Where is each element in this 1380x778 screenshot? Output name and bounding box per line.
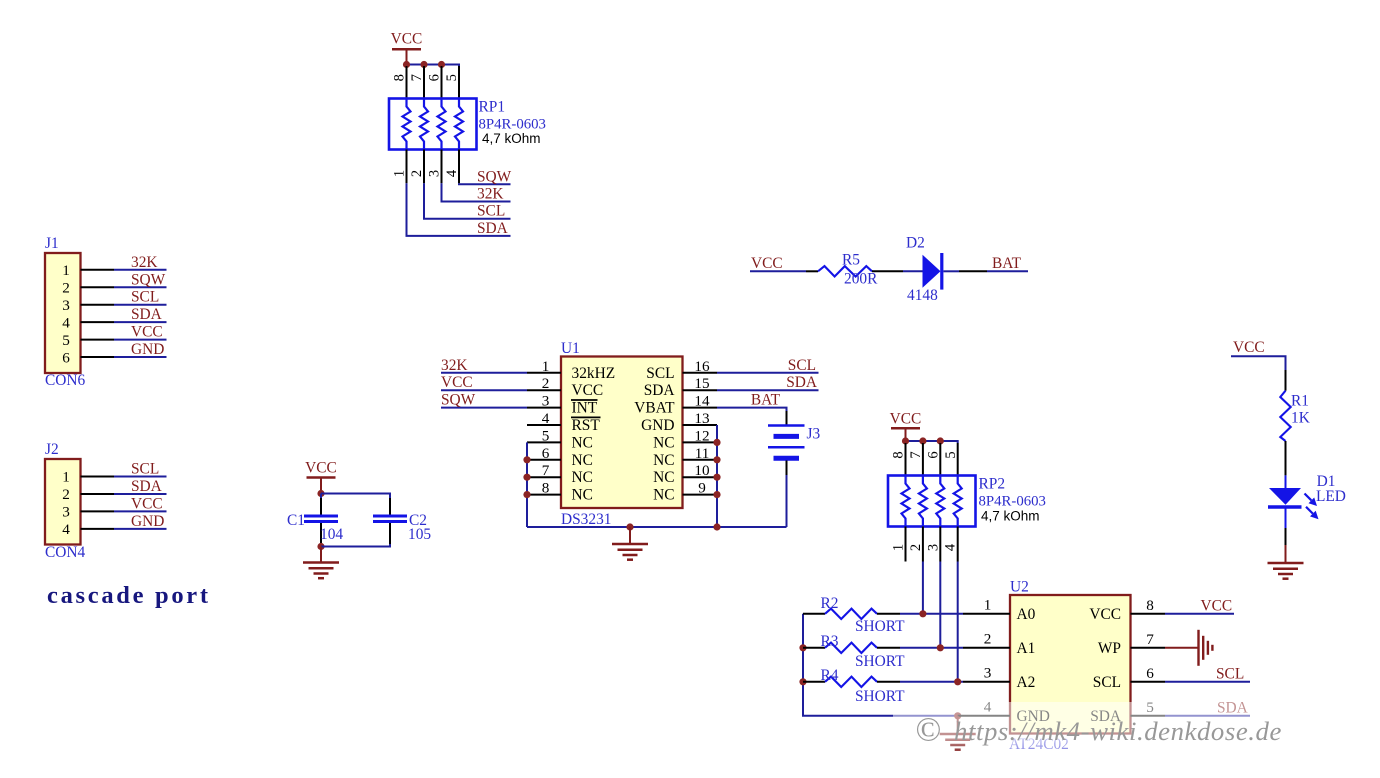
- svg-text:A0: A0: [1017, 606, 1036, 623]
- wire RP1 pin 1: [407, 183, 511, 236]
- pin stub J1 pin 2: [81, 286, 115, 288]
- wire: [903, 270, 923, 272]
- svg-text:©: ©: [915, 712, 941, 749]
- ground: [303, 563, 339, 579]
- svg-text:2: 2: [984, 630, 992, 647]
- svg-text:8P4R-0603: 8P4R-0603: [979, 494, 1046, 510]
- svg-text:SQW: SQW: [477, 168, 512, 185]
- junction: [523, 456, 530, 463]
- overline RST: [571, 416, 601, 418]
- ground (rotated) at WP: [1199, 630, 1213, 666]
- svg-text:6: 6: [427, 74, 443, 81]
- wire RP1 pin 4: [459, 183, 511, 184]
- pin stub C1 bottom: [320, 523, 322, 544]
- wire net SCL: [1165, 681, 1250, 683]
- svg-text:1: 1: [984, 596, 992, 613]
- svg-text:VCC: VCC: [890, 411, 922, 428]
- pin stub RP2 pin 2: [922, 527, 924, 562]
- svg-text:RP2: RP2: [979, 476, 1006, 493]
- resistor R2: [825, 609, 877, 619]
- svg-text:J3: J3: [807, 426, 821, 443]
- junction: [523, 491, 530, 498]
- pin stub U1 pin 10: [683, 476, 718, 478]
- svg-text:J1: J1: [45, 235, 59, 252]
- svg-text:5: 5: [542, 427, 550, 444]
- junction: [713, 439, 720, 446]
- pin stub U2 pin 4: [958, 715, 1010, 717]
- svg-text:VCC: VCC: [441, 374, 473, 391]
- svg-text:SQW: SQW: [131, 271, 166, 288]
- pin stub U1 pin 9: [683, 494, 718, 496]
- svg-text:U2: U2: [1010, 579, 1029, 596]
- junction: [713, 523, 720, 530]
- pin stub U1 pin 13: [683, 424, 718, 426]
- svg-text:https://mk4-wiki.denkdose.de: https://mk4-wiki.denkdose.de: [954, 716, 1282, 746]
- svg-text:1K: 1K: [1291, 410, 1310, 427]
- wire net VCC: [1165, 613, 1234, 615]
- pin stub RP2 pin 1: [905, 527, 907, 562]
- svg-text:BAT: BAT: [992, 255, 1022, 272]
- wire net SDA: [717, 389, 819, 391]
- svg-text:3: 3: [62, 504, 70, 521]
- pin stub RP1 pin 3: [441, 150, 443, 184]
- svg-text:4: 4: [943, 543, 959, 551]
- svg-text:DS3231: DS3231: [561, 511, 611, 528]
- junction: [626, 523, 633, 530]
- svg-text:VCC: VCC: [1089, 606, 1121, 623]
- svg-text:32K: 32K: [441, 357, 468, 374]
- pin stub J3 bottom: [786, 461, 788, 476]
- pin stub U2: [963, 681, 1010, 683]
- svg-text:VCC: VCC: [1201, 598, 1233, 615]
- resistor network RP2: [888, 476, 976, 527]
- svg-text:CON6: CON6: [45, 372, 85, 389]
- svg-text:1: 1: [62, 262, 70, 279]
- diode D2: [923, 253, 942, 290]
- pin stub D2 right: [959, 270, 987, 272]
- resistor network RP1: [389, 99, 477, 150]
- junction: [902, 437, 909, 444]
- resistor R1: [1280, 391, 1290, 441]
- wire to LED: [1285, 475, 1287, 489]
- svg-text:SCL: SCL: [131, 289, 159, 306]
- svg-text:13: 13: [694, 410, 709, 427]
- ground: [1268, 563, 1304, 579]
- wire net VCC: [441, 389, 527, 391]
- pin stub U2: [963, 613, 1010, 615]
- pin stub J1 pin 1: [81, 269, 115, 271]
- svg-text:3: 3: [62, 297, 70, 314]
- wire GND bus right: [716, 425, 718, 527]
- wire to C2: [321, 494, 390, 499]
- svg-text:3: 3: [925, 544, 941, 551]
- svg-text:15: 15: [694, 375, 709, 392]
- svg-text:VCC: VCC: [305, 460, 337, 477]
- svg-text:1: 1: [392, 170, 408, 177]
- pin stub J2 pin 4: [81, 528, 115, 530]
- junction: [317, 490, 324, 497]
- svg-text:WP: WP: [1098, 640, 1121, 657]
- junction: [799, 678, 806, 685]
- svg-text:7: 7: [542, 462, 550, 479]
- wire VCC rail to RP2 pins: [906, 441, 958, 443]
- svg-text:NC: NC: [572, 487, 593, 504]
- wire net VCC: [1231, 356, 1286, 370]
- resistor R4: [825, 677, 877, 687]
- LED D1: [1268, 488, 1319, 519]
- svg-text:2: 2: [542, 375, 550, 392]
- pin stub U1 pin 5: [527, 441, 561, 443]
- svg-text:5: 5: [444, 74, 460, 81]
- svg-text:12: 12: [694, 427, 709, 444]
- wire net 32K: [114, 269, 167, 271]
- pin stub R1 bottom: [1285, 441, 1287, 475]
- pin stub J2 pin 3: [81, 510, 115, 512]
- svg-text:GND: GND: [131, 513, 164, 530]
- svg-text:14: 14: [694, 393, 710, 410]
- svg-text:VCC: VCC: [131, 324, 163, 341]
- overline INT: [571, 399, 598, 401]
- wire: [900, 613, 963, 615]
- ground: [940, 734, 976, 750]
- svg-text:11: 11: [695, 445, 710, 462]
- wire NC bus left: [526, 442, 528, 527]
- svg-text:6: 6: [542, 445, 550, 462]
- wire net VCC: [114, 339, 167, 341]
- pin stub RP2 pin 7: [922, 443, 924, 476]
- svg-text:LED: LED: [1316, 488, 1346, 505]
- wire net SQW: [441, 407, 527, 409]
- svg-text:6: 6: [1146, 665, 1154, 682]
- svg-text:4: 4: [542, 410, 550, 427]
- pin stub R5 left: [806, 270, 818, 272]
- svg-text:2: 2: [409, 170, 425, 177]
- wire: [944, 270, 960, 272]
- wire net BAT: [987, 270, 1028, 272]
- pin stub RP1 pin 5: [458, 66, 460, 99]
- svg-text:105: 105: [408, 526, 431, 543]
- wire RP1 pin 2: [424, 183, 511, 218]
- svg-text:R3: R3: [821, 633, 839, 650]
- svg-text:NC: NC: [653, 487, 674, 504]
- ground: [612, 544, 648, 560]
- wire to ground: [320, 547, 322, 563]
- svg-text:C1: C1: [287, 512, 305, 529]
- svg-text:NC: NC: [653, 434, 674, 451]
- svg-text:1: 1: [62, 469, 70, 486]
- pin stub U1 pin 6: [527, 459, 561, 461]
- svg-text:104: 104: [320, 526, 343, 543]
- pin stub J3 top: [786, 411, 788, 425]
- svg-text:7: 7: [908, 451, 924, 458]
- junction: [919, 610, 926, 617]
- pin stub RP1 pin 1: [406, 150, 408, 184]
- wire: [900, 681, 963, 683]
- svg-text:VCC: VCC: [751, 255, 783, 272]
- pin stub RP1 pin 7: [423, 66, 425, 99]
- pin stub RP2 pin 5: [957, 443, 959, 476]
- junction: [919, 437, 926, 444]
- svg-text:SCL: SCL: [131, 461, 159, 478]
- svg-text:SDA: SDA: [131, 306, 162, 323]
- wire left bus to GND pin: [803, 614, 898, 716]
- svg-text:32kHZ: 32kHZ: [572, 365, 616, 382]
- svg-text:8: 8: [392, 74, 408, 81]
- VCC power symbol: [891, 427, 920, 430]
- pin stub D1 bottom: [1285, 507, 1287, 528]
- pin stub U1 pin 8: [527, 494, 561, 496]
- wire VCC stem: [320, 478, 322, 494]
- svg-text:NC: NC: [572, 469, 593, 486]
- svg-text:VCC: VCC: [391, 31, 423, 48]
- junction: [523, 474, 530, 481]
- wire: [320, 494, 322, 499]
- junction: [317, 543, 324, 550]
- wire net SCL: [717, 372, 819, 374]
- svg-text:3: 3: [542, 393, 550, 410]
- pin stub U1 pin 4: [527, 424, 561, 426]
- svg-text:A1: A1: [1017, 640, 1036, 657]
- pin stub U1 pin 7: [527, 476, 561, 478]
- svg-text:3: 3: [427, 170, 443, 177]
- svg-text:SHORT: SHORT: [855, 618, 905, 635]
- wire WP to ground: [1165, 647, 1198, 649]
- pin stub U2 pin 7: [1131, 647, 1166, 649]
- wire to ground: [1285, 545, 1287, 563]
- junction: [438, 61, 445, 68]
- svg-text:BAT: BAT: [751, 392, 781, 409]
- svg-text:5: 5: [943, 451, 959, 458]
- pin stub U2: [963, 647, 1010, 649]
- wire RP1 pin 3: [442, 183, 511, 201]
- pin stub U1 pin 2: [527, 389, 561, 391]
- wire net 32K: [441, 372, 527, 374]
- svg-text:A2: A2: [1017, 674, 1036, 691]
- svg-text:5: 5: [62, 332, 70, 349]
- svg-text:8: 8: [1146, 597, 1154, 614]
- battery J3: [768, 426, 805, 459]
- pin stub R1 top: [1285, 370, 1287, 391]
- pin stub RP2 pin 4: [957, 527, 959, 562]
- pin stub RP1 pin 2: [423, 150, 425, 184]
- svg-text:3: 3: [984, 664, 992, 681]
- svg-text:SDA: SDA: [644, 382, 675, 399]
- pin stub J1 pin 6: [81, 356, 115, 358]
- svg-text:VCC: VCC: [1233, 339, 1265, 356]
- pin stub RP2 pin 8: [905, 443, 907, 476]
- svg-text:VCC: VCC: [572, 382, 604, 399]
- svg-text:1: 1: [542, 358, 550, 375]
- pin stub R3 left: [803, 647, 825, 649]
- wire net BAT to battery: [717, 408, 787, 411]
- svg-text:4: 4: [444, 169, 460, 177]
- pin stub U2 pin 8: [1131, 613, 1166, 615]
- pin stub R4 right: [877, 681, 900, 683]
- pin stub C1 top: [320, 498, 322, 515]
- svg-text:R2: R2: [821, 595, 839, 612]
- wire net SCL: [114, 304, 167, 306]
- resistor R5: [818, 266, 872, 276]
- svg-text:RST: RST: [572, 417, 601, 434]
- wire net VCC: [114, 510, 167, 512]
- wire VCC rail to RP1 pins: [407, 65, 460, 67]
- svg-text:SHORT: SHORT: [855, 653, 905, 670]
- wire ground bus: [527, 526, 787, 528]
- pin stub R4 left: [803, 681, 825, 683]
- svg-text:J2: J2: [45, 441, 59, 458]
- svg-text:32K: 32K: [477, 186, 504, 203]
- svg-text:2: 2: [908, 544, 924, 551]
- svg-text:32K: 32K: [131, 254, 158, 271]
- capacitor C2: [373, 516, 407, 522]
- svg-text:SCL: SCL: [1093, 674, 1121, 691]
- pin stub R2 right: [877, 613, 900, 615]
- pin stub R3 right: [877, 647, 900, 649]
- svg-text:GND: GND: [641, 417, 674, 434]
- svg-text:NC: NC: [572, 434, 593, 451]
- svg-text:CON4: CON4: [45, 544, 85, 561]
- junction: [713, 456, 720, 463]
- pin stub J2 pin 1: [81, 476, 115, 478]
- pin stub J2 pin 2: [81, 493, 115, 495]
- wire net SCL: [114, 476, 167, 478]
- svg-text:10: 10: [694, 462, 710, 479]
- resistor R3: [825, 643, 877, 653]
- svg-text:SDA: SDA: [477, 220, 508, 237]
- svg-text:4: 4: [62, 521, 70, 538]
- wire net SDA: [114, 321, 167, 323]
- svg-text:VBAT: VBAT: [634, 400, 675, 417]
- svg-text:SDA: SDA: [131, 478, 162, 495]
- pin stub U1 pin 14: [683, 407, 718, 409]
- wire net SQW: [114, 286, 167, 288]
- VCC power symbol: [392, 48, 421, 51]
- pin stub RP1 pin 6: [441, 66, 443, 99]
- junction: [937, 644, 944, 651]
- svg-text:16: 16: [694, 358, 710, 375]
- wire GND row: [898, 715, 958, 717]
- svg-text:200R: 200R: [844, 271, 878, 288]
- wire RP2 pin 2: [922, 562, 924, 614]
- pin stub R5 right: [872, 270, 903, 272]
- svg-text:4,7 kOhm: 4,7 kOhm: [981, 509, 1040, 524]
- pin stub C2 bottom: [389, 523, 391, 544]
- pin stub U1 pin 11: [683, 459, 718, 461]
- pin stub U1 pin 12: [683, 441, 718, 443]
- wire battery to bus: [786, 475, 788, 527]
- wire to ground: [957, 716, 959, 734]
- svg-text:4,7 kOhm: 4,7 kOhm: [482, 131, 541, 146]
- wire: [1285, 528, 1287, 545]
- pin stub RP1 pin 8: [406, 66, 408, 99]
- wire net GND: [114, 528, 167, 530]
- junction: [403, 61, 410, 68]
- svg-text:NC: NC: [653, 469, 674, 486]
- svg-text:cascade port: cascade port: [47, 582, 211, 609]
- svg-text:4148: 4148: [907, 287, 938, 304]
- svg-text:6: 6: [62, 349, 70, 366]
- svg-text:INT: INT: [572, 400, 598, 417]
- pin stub J1 pin 3: [81, 304, 115, 306]
- svg-text:D2: D2: [906, 235, 925, 252]
- svg-text:SQW: SQW: [441, 392, 476, 409]
- svg-text:R1: R1: [1291, 393, 1309, 410]
- svg-text:7: 7: [1146, 631, 1154, 648]
- svg-text:SCL: SCL: [1216, 666, 1244, 683]
- wire VCC stem: [905, 428, 907, 441]
- svg-text:8: 8: [891, 451, 907, 458]
- pin stub U1 pin 1: [527, 372, 561, 374]
- pin stub RP2 pin 6: [939, 443, 941, 476]
- svg-text:1: 1: [891, 544, 907, 551]
- svg-text:SCL: SCL: [788, 357, 816, 374]
- svg-text:6: 6: [926, 451, 942, 458]
- junction: [799, 644, 806, 651]
- pin stub U2 pin 5: [1131, 715, 1166, 717]
- wire RP2 pin 4: [957, 562, 959, 682]
- svg-text:RP1: RP1: [479, 99, 506, 116]
- svg-text:NC: NC: [572, 452, 593, 469]
- svg-text:8: 8: [542, 480, 550, 497]
- VCC power symbol: [307, 476, 336, 479]
- svg-text:SCL: SCL: [646, 365, 674, 382]
- svg-text:4: 4: [62, 314, 70, 331]
- svg-text:R4: R4: [821, 667, 839, 684]
- wire: [320, 544, 322, 547]
- pin stub J1 pin 5: [81, 339, 115, 341]
- junction: [420, 61, 427, 68]
- wire net SDA: [1165, 715, 1250, 717]
- pin stub U2 pin 6: [1131, 681, 1166, 683]
- wire net SDA: [114, 493, 167, 495]
- junction: [713, 491, 720, 498]
- pin stub J1 pin 4: [81, 321, 115, 323]
- junction: [713, 474, 720, 481]
- wire net VCC: [750, 270, 806, 272]
- pin stub C2 top: [389, 498, 391, 515]
- svg-text:SCL: SCL: [477, 203, 505, 220]
- pin stub U1 pin 15: [683, 389, 718, 391]
- wire RP2 pin 3: [939, 562, 941, 648]
- svg-text:NC: NC: [653, 452, 674, 469]
- svg-text:2: 2: [62, 279, 70, 296]
- svg-text:7: 7: [409, 74, 425, 81]
- junction: [954, 678, 961, 685]
- wire net GND: [114, 356, 167, 358]
- pin stub U1 pin 3: [527, 407, 561, 409]
- junction: [937, 437, 944, 444]
- pin stub RP1 pin 4: [458, 150, 460, 184]
- svg-text:U1: U1: [561, 340, 580, 357]
- svg-text:R5: R5: [842, 252, 860, 269]
- svg-text:9: 9: [698, 480, 706, 497]
- pin stub RP2 pin 3: [939, 527, 941, 562]
- svg-text:VCC: VCC: [131, 495, 163, 512]
- pin stub R2 left: [803, 613, 825, 615]
- wire from C2: [321, 544, 390, 547]
- svg-text:SDA: SDA: [786, 374, 817, 391]
- wire to ground: [629, 527, 631, 544]
- wire: [900, 647, 963, 649]
- junction: [954, 712, 961, 719]
- wire VCC stem: [406, 49, 408, 64]
- svg-text:2: 2: [62, 486, 70, 503]
- capacitor C1: [304, 516, 338, 522]
- pin stub U1 pin 16: [683, 372, 718, 374]
- svg-text:GND: GND: [131, 341, 164, 358]
